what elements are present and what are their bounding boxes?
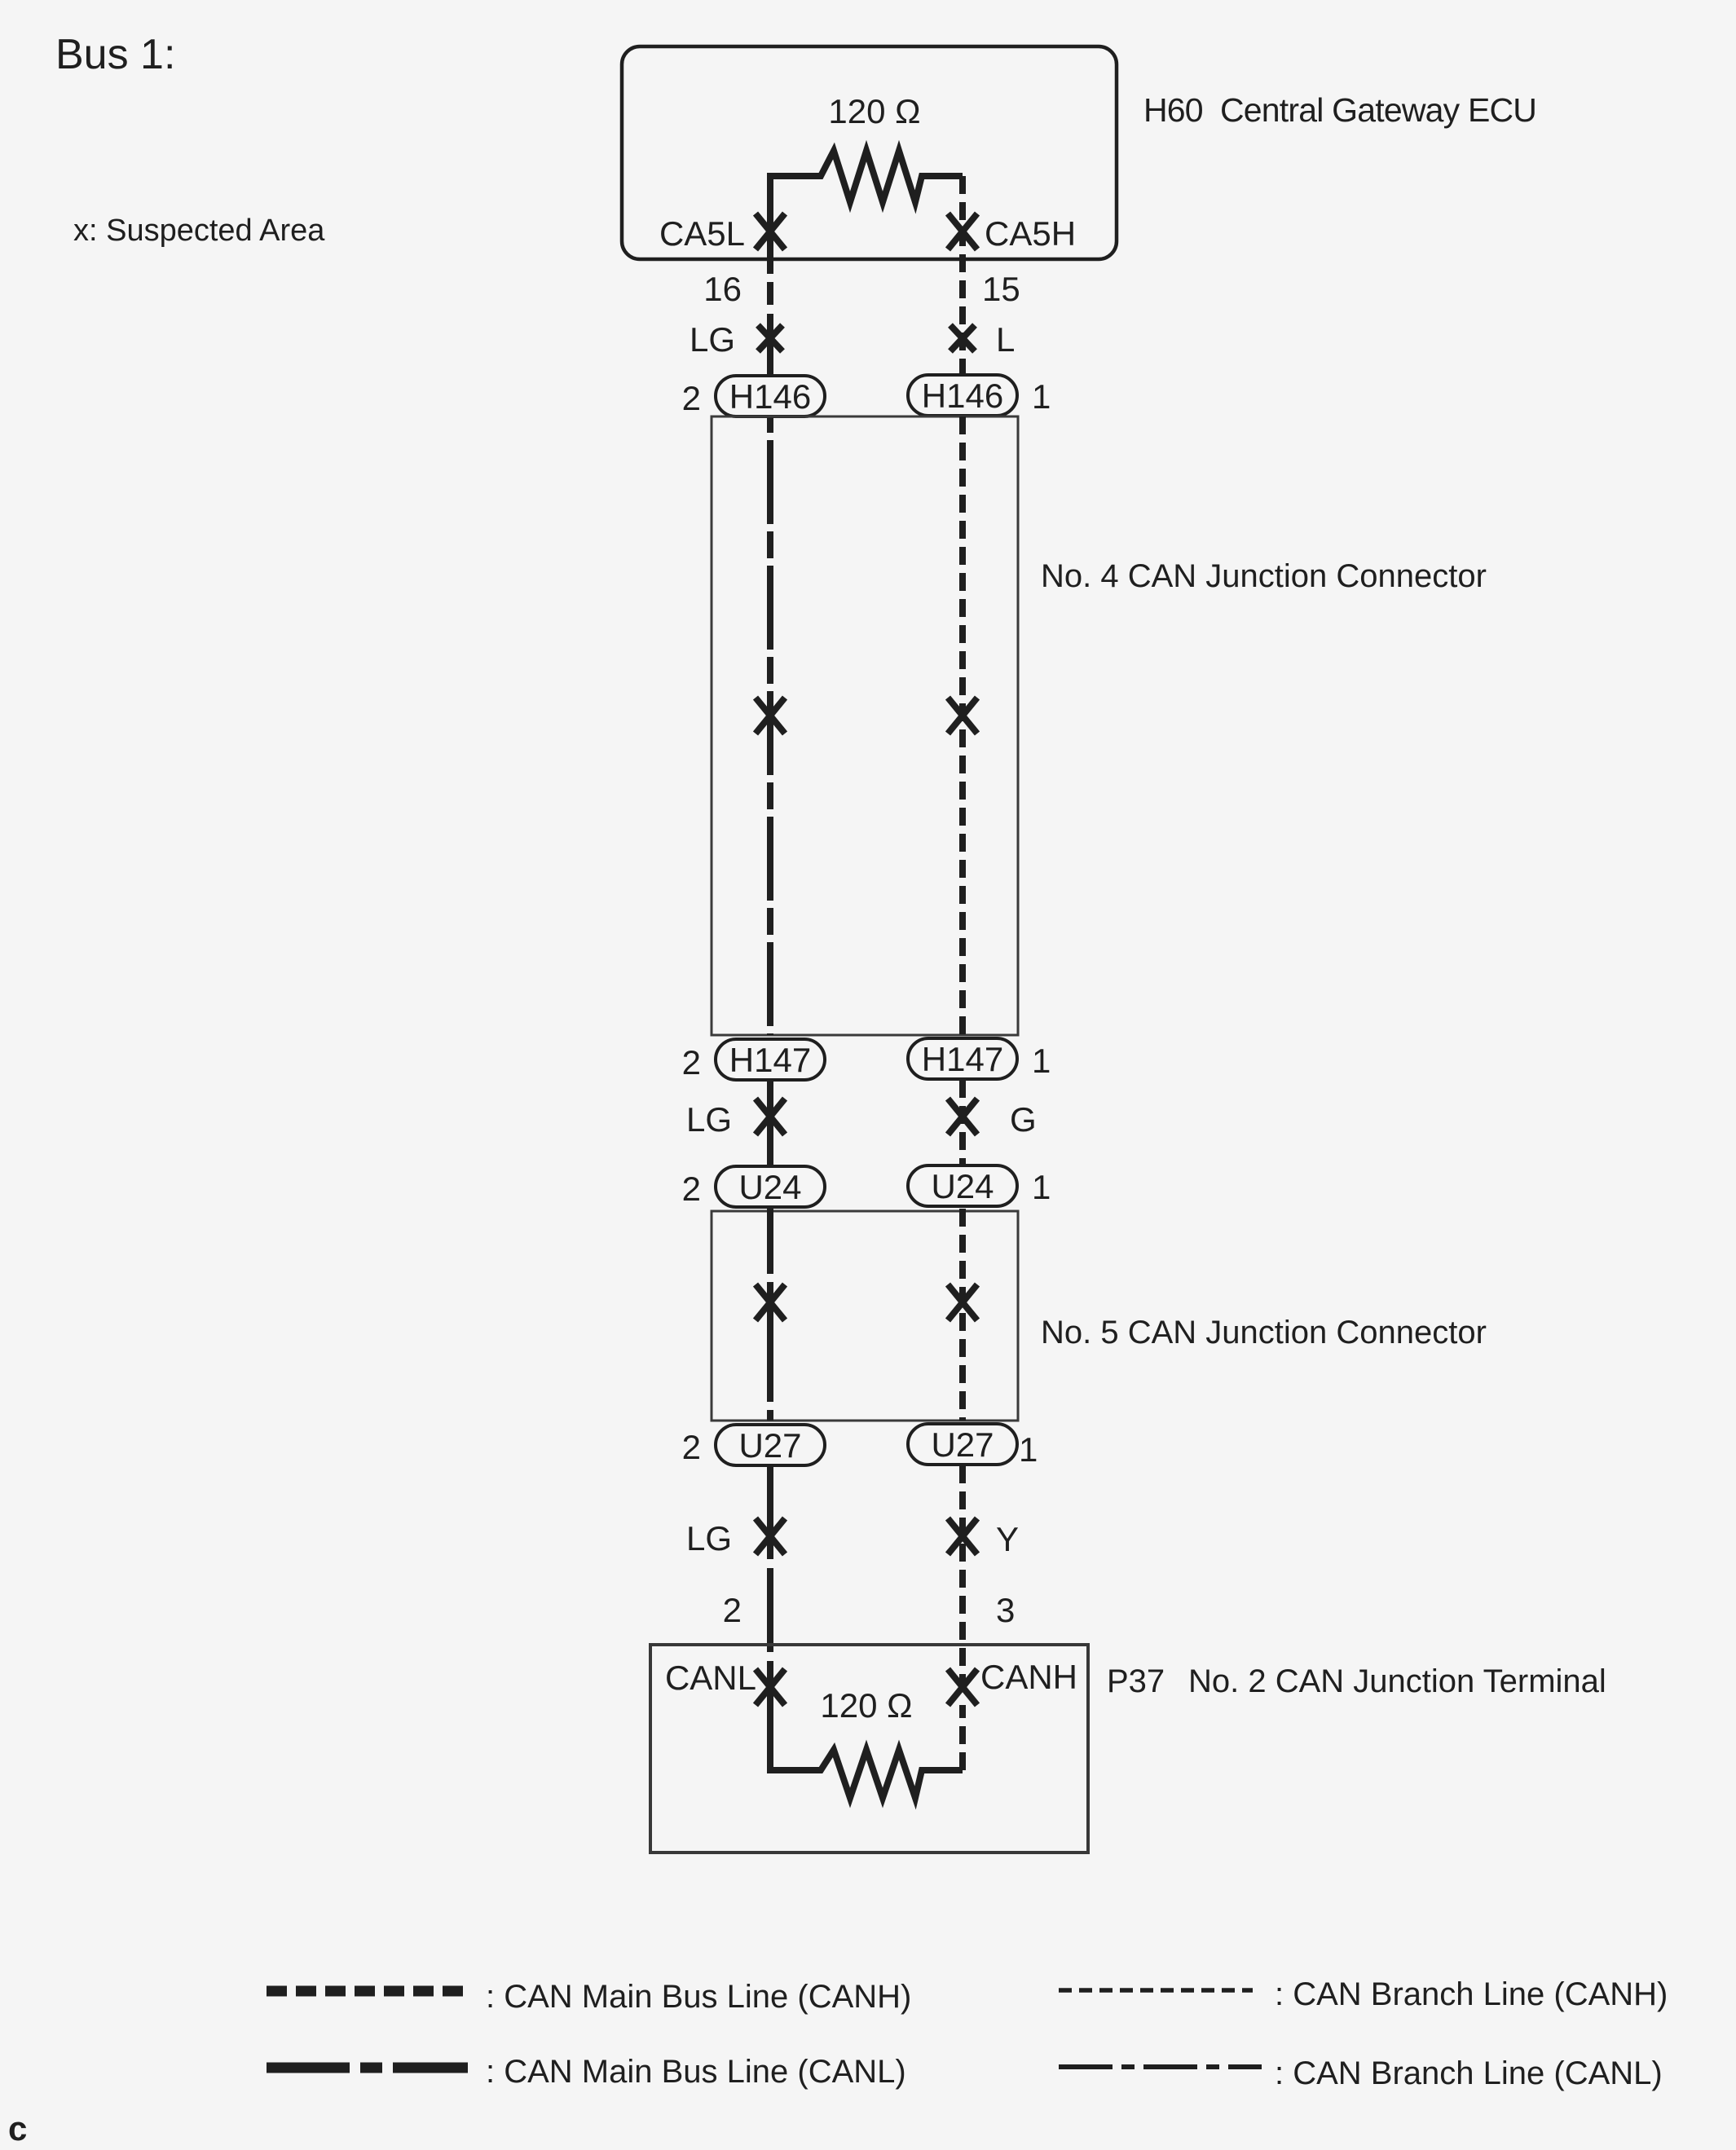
svg-text:P37: P37	[1107, 1663, 1165, 1699]
connector H146 left oval	[716, 376, 825, 416]
resistor R2 120 ohm (inside P37)	[770, 1679, 963, 1798]
connector U27 right oval	[908, 1424, 1017, 1465]
svg-text:No. 5 CAN Junction Connector: No. 5 CAN Junction Connector	[1041, 1315, 1487, 1350]
wire CANL H147 to U24	[767, 1081, 773, 1165]
svg-text:CA5L: CA5L	[659, 214, 745, 253]
resistor R1 120 ohm (inside H60)	[770, 151, 963, 249]
svg-text:120 Ω: 120 Ω	[820, 1686, 912, 1725]
svg-text:CANL: CANL	[665, 1659, 756, 1697]
suspect X inside No.4 left	[756, 698, 785, 734]
svg-text:H147: H147	[922, 1040, 1003, 1078]
svg-text:LG: LG	[690, 320, 735, 359]
svg-text:LG: LG	[686, 1519, 732, 1557]
svg-text:U27: U27	[738, 1426, 801, 1465]
suspect X inside No.4 right	[948, 698, 977, 734]
suspect X at CANL	[756, 1669, 785, 1705]
junction box No.5	[712, 1211, 1018, 1421]
svg-text:: CAN Branch Line (CANH): : CAN Branch Line (CANH)	[1275, 1976, 1668, 2012]
svg-text:: CAN Main Bus Line (CANL): : CAN Main Bus Line (CANL)	[486, 2054, 906, 2090]
svg-text:CANH: CANH	[980, 1658, 1077, 1696]
connector U24 right oval	[908, 1165, 1017, 1206]
legend main bus CANL sample	[267, 2063, 468, 2073]
svg-text:x: Suspected Area: x: Suspected Area	[73, 214, 325, 248]
svg-text:H146: H146	[729, 377, 811, 416]
svg-text:16: 16	[703, 270, 742, 308]
wire CANL U27 to P37 (dash-dot)	[767, 1466, 773, 1687]
wire CANH main inside No.5 (dashed)	[959, 1209, 966, 1421]
wire CANL main inside No.5 (dash-dot)	[767, 1209, 773, 1421]
wire CANL branch inside H60	[767, 249, 773, 259]
svg-text:Y: Y	[996, 1520, 1019, 1558]
svg-text:1: 1	[1032, 1168, 1051, 1206]
suspect X at CA5L	[756, 214, 785, 249]
svg-text:2: 2	[723, 1591, 742, 1629]
suspect X at wire LG bottom	[756, 1518, 785, 1554]
svg-text:H146: H146	[922, 377, 1003, 415]
wire CANL H60 to H146 (dash-dot)	[767, 259, 773, 375]
svg-text:15: 15	[982, 270, 1020, 308]
suspect X inside No.5 left	[756, 1284, 785, 1320]
svg-text:U24: U24	[931, 1167, 994, 1205]
svg-text:2: 2	[682, 1170, 701, 1208]
svg-text:1: 1	[1019, 1430, 1038, 1469]
suspect X at wire L top	[950, 325, 975, 351]
svg-text:G: G	[1010, 1100, 1037, 1139]
svg-text:c: c	[8, 2109, 27, 2148]
svg-text:U24: U24	[738, 1168, 801, 1206]
wire CANH branch inside H60 (dashed)	[959, 176, 966, 375]
connector H147 right oval	[908, 1038, 1017, 1079]
connector H146 right oval	[908, 375, 1017, 416]
svg-text:1: 1	[1032, 1042, 1051, 1080]
suspect X at wire G mid	[948, 1099, 977, 1134]
legend branch CANH sample	[1059, 1988, 1253, 1993]
terminal box P37	[650, 1645, 1088, 1853]
connector H147 left oval	[716, 1039, 825, 1080]
svg-text:120 Ω: 120 Ω	[828, 92, 920, 130]
legend main bus CANH sample	[267, 1986, 468, 1997]
connector U24 left oval	[716, 1166, 825, 1207]
junction box No.4	[712, 416, 1018, 1035]
svg-text:H147: H147	[729, 1041, 811, 1079]
suspect X at CA5H	[948, 214, 977, 249]
svg-text:CA5H: CA5H	[985, 214, 1076, 253]
svg-text:: CAN Branch Line (CANL): : CAN Branch Line (CANL)	[1275, 2055, 1663, 2091]
svg-text:H60 Central Gateway ECU: H60 Central Gateway ECU	[1143, 91, 1536, 129]
svg-text:U27: U27	[931, 1425, 994, 1464]
suspect X at wire Y bottom	[948, 1518, 977, 1554]
svg-text:L: L	[996, 320, 1015, 359]
wire CANH H147 to U24 (dashed)	[959, 1080, 966, 1165]
svg-text:2: 2	[682, 1043, 701, 1082]
legend branch CANL sample	[1059, 2064, 1262, 2069]
svg-text:1: 1	[1032, 377, 1051, 416]
suspect X inside No.5 right	[948, 1284, 977, 1320]
svg-text:LG: LG	[686, 1100, 732, 1139]
svg-text:2: 2	[682, 379, 701, 417]
wire CANH U27 to P37 (dashed)	[959, 1465, 966, 1687]
svg-text:2: 2	[682, 1428, 701, 1466]
connector U27 left oval	[716, 1425, 825, 1465]
wire CANH lead in P37 (dashed)	[959, 1705, 966, 1770]
svg-text:3: 3	[996, 1591, 1015, 1629]
svg-text:Bus 1:: Bus 1:	[55, 31, 175, 78]
suspect X at wire LG mid	[756, 1099, 785, 1134]
ECU H60 box	[622, 46, 1117, 259]
svg-text:No. 4 CAN Junction Connector: No. 4 CAN Junction Connector	[1041, 558, 1487, 594]
suspect X at CANH	[948, 1669, 977, 1705]
svg-text:No. 2 CAN Junction Terminal: No. 2 CAN Junction Terminal	[1188, 1663, 1606, 1699]
wire CANH main inside No.4 (dashed)	[959, 416, 966, 1035]
suspect X at wire LG top	[758, 325, 782, 351]
svg-text:: CAN Main Bus Line (CANH): : CAN Main Bus Line (CANH)	[486, 1979, 911, 2015]
wire CANL main inside No.4 (dash-dot)	[767, 418, 773, 1035]
